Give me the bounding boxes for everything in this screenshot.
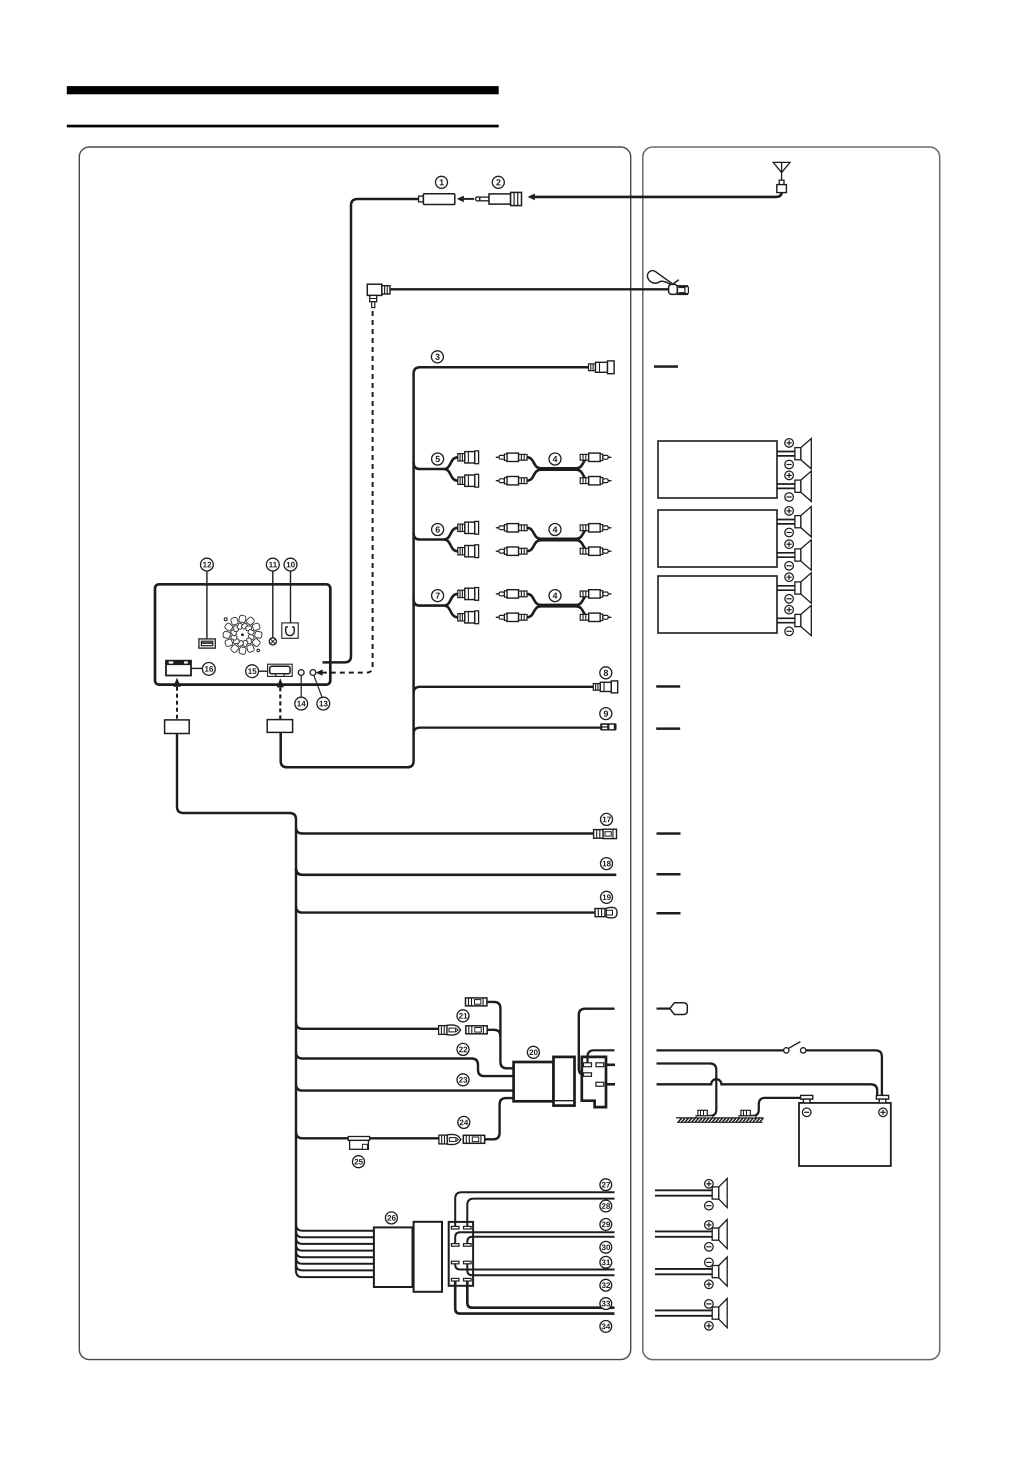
cooling fan [223, 615, 263, 655]
label 5 [432, 453, 444, 465]
harness fan-out wires into connector 26 [296, 1224, 374, 1230]
female spade 24 [463, 1135, 484, 1143]
label 10 [284, 558, 297, 571]
amplifier box 3 [658, 576, 777, 633]
label 11 [266, 558, 279, 571]
connector 3 [589, 364, 596, 371]
fuse holder 25 [348, 1137, 369, 1141]
label 20 [527, 1046, 539, 1058]
box for 15 [267, 720, 292, 733]
wire 29 [455, 1232, 614, 1243]
pigtail connectors 7 [414, 588, 479, 624]
label 3 [431, 351, 443, 363]
pigtail connectors 6 [414, 521, 479, 557]
label 11 leader [272, 571, 274, 638]
aux 3.5mm right-angle plug [367, 284, 382, 295]
wire 30 [467, 1237, 614, 1244]
label 18 [601, 858, 613, 870]
wire 31 [455, 1264, 614, 1270]
wire battery lead with hop [657, 1079, 878, 1095]
label 12 leader [206, 571, 208, 639]
female spade upper 21 [466, 998, 487, 1006]
blank label dashes [654, 365, 678, 368]
wire 27 [455, 1192, 614, 1226]
speaker amp-4 [777, 540, 811, 570]
wire 19 [296, 906, 596, 912]
label 15 leader [259, 670, 268, 672]
label 15 [246, 665, 259, 678]
speaker amp-3 [777, 507, 811, 537]
battery minus post [801, 1095, 813, 1103]
speaker amp-2 [777, 471, 811, 501]
pigtail connectors 5 [414, 451, 479, 487]
wire 24 [296, 1132, 439, 1138]
microphone [647, 271, 673, 285]
arrow into jack 1 [463, 198, 475, 200]
pin slots of vehicle connector [584, 1063, 592, 1067]
wire main harness from box 16 [177, 734, 296, 1271]
wire 22 [296, 1052, 514, 1076]
box for 16 [165, 720, 190, 734]
label 24 [458, 1116, 470, 1128]
wire upper spade to connector 20 [487, 1002, 514, 1068]
antenna plug 2 [476, 197, 480, 201]
label 19 [601, 891, 613, 903]
label 4 [549, 524, 561, 536]
fusible link plug [670, 1003, 688, 1015]
female spade 21 [466, 1026, 487, 1034]
ground lug 1 [696, 1110, 713, 1118]
right panel frame [643, 147, 940, 1360]
label 17 [601, 813, 613, 825]
label 1 [436, 176, 448, 188]
title bar [67, 86, 499, 94]
label 6 [432, 524, 444, 536]
male spade on wire 24 [439, 1134, 461, 1144]
left panel frame [79, 147, 630, 1360]
wire 8 [414, 687, 594, 693]
RCA cable 4 [496, 524, 612, 556]
arrow into connector 15 [277, 678, 284, 687]
USB port 12 [199, 639, 215, 648]
fuse block [449, 1222, 473, 1286]
wire ground lead [657, 1064, 717, 1116]
label 12 [201, 558, 214, 571]
connector 19 [595, 909, 605, 917]
label 10 leader [290, 571, 292, 623]
battery [799, 1103, 891, 1166]
rear speaker 2 [655, 1220, 727, 1249]
label 21 [457, 1010, 469, 1022]
labels 27-34 [600, 1179, 612, 1191]
fuse block pins [451, 1226, 459, 1229]
wire to ignition switch [588, 1050, 615, 1063]
male spade on wire 21 [439, 1025, 461, 1035]
wire battery minus to ground [749, 1098, 801, 1116]
speaker amp-6 [777, 605, 811, 635]
car antenna [773, 162, 790, 172]
chassis ground bar [676, 1117, 764, 1119]
wire from car antenna with arrow into plug 2 [534, 193, 781, 197]
battery plus post [876, 1095, 888, 1103]
stub wire ground [606, 1064, 615, 1067]
wire 34 [455, 1281, 614, 1314]
wire to fusible link (to right panel) [579, 1009, 615, 1075]
wire accessory to ignition switch [657, 1049, 784, 1051]
head unit rear panel [155, 584, 330, 684]
label 7 [432, 590, 444, 602]
speaker amp-1 [777, 439, 811, 469]
label 4 [549, 590, 561, 602]
jack 14 [298, 670, 304, 676]
label 25 [353, 1156, 365, 1168]
wire switch to battery plus [806, 1050, 882, 1095]
jack socket 11 [269, 638, 276, 645]
wire 9 [414, 728, 601, 734]
ground lug 2 [739, 1110, 756, 1118]
label 8 [600, 667, 612, 679]
battery minus symbol [802, 1108, 811, 1117]
label 23 [457, 1074, 469, 1086]
label 16 [202, 663, 215, 676]
RCA cable 4 [496, 453, 612, 485]
wire 17 [296, 827, 594, 833]
label 14 leader [300, 675, 302, 697]
label 14 [295, 697, 308, 710]
optical connector 10 [282, 623, 298, 638]
wire female spade 24 to connector 20 [485, 1098, 514, 1139]
antenna jack 1 [419, 196, 424, 202]
wire 21 [296, 1022, 439, 1028]
connector 15 [268, 664, 293, 676]
wire 28 [467, 1199, 614, 1227]
wire aux plug to microphone [390, 288, 670, 290]
label 9 [600, 708, 612, 720]
connector 9 [600, 723, 616, 730]
wire 32 [467, 1264, 614, 1275]
label 4 [549, 453, 561, 465]
wire 23 [296, 1084, 514, 1090]
connector 17 [594, 830, 604, 839]
ignition switch [784, 1048, 789, 1053]
battery plus symbol [879, 1108, 888, 1117]
wire 18 [296, 868, 616, 874]
label 2 [492, 176, 504, 188]
speaker amp-5 [777, 573, 811, 603]
wire from female spade 21 to connector 20 [487, 1030, 500, 1036]
arrow into connector 16 [173, 678, 180, 687]
label 13 [317, 697, 330, 710]
jack 13 [310, 670, 316, 676]
label 16 leader [191, 667, 202, 669]
amplifier box 2 [658, 510, 777, 567]
vehicle-side connector of 20 [582, 1057, 606, 1107]
stub wire battery [606, 1083, 615, 1086]
wire 33 [467, 1281, 614, 1308]
rear speaker 3 [655, 1257, 727, 1286]
power connector 20 body [514, 1062, 554, 1101]
wire cable 3 / main AV harness vertical [281, 367, 589, 767]
fusible link wire [657, 1007, 670, 1009]
RCA cable 4 [496, 590, 612, 622]
connector 8 [593, 684, 600, 691]
label 22 [457, 1043, 469, 1055]
wire antenna lead from jack 1 into head unit [323, 199, 427, 662]
connector 16 [166, 661, 191, 676]
label 13 leader [314, 675, 322, 697]
title underline [67, 125, 499, 128]
connector 26 [374, 1227, 413, 1287]
label 26 [385, 1212, 397, 1224]
rear speaker 4 [655, 1299, 727, 1328]
amplifier box 1 [658, 441, 777, 498]
rear speaker 1 [655, 1178, 727, 1207]
dashed wire from aux plug to jack 13 [321, 311, 373, 673]
